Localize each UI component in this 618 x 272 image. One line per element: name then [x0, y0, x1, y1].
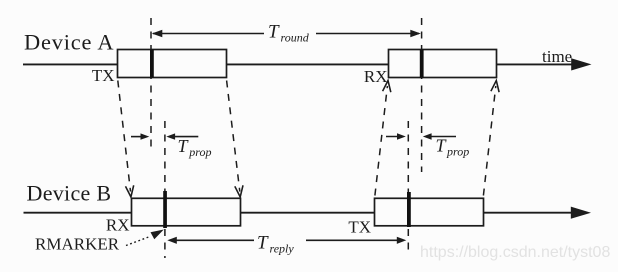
T_prop left dimension arrows — [131, 133, 212, 159]
svg-text:prop: prop — [188, 145, 211, 159]
device B timeline — [24, 207, 592, 219]
device A timeline — [23, 58, 592, 70]
frame A-TX — [118, 50, 227, 78]
T_reply dimension arrow — [167, 233, 406, 256]
marker bar A-RX — [420, 50, 424, 78]
svg-text:https://blog.csdn.net/tyst08: https://blog.csdn.net/tyst08 — [420, 244, 610, 261]
T_round dimension arrow — [152, 22, 421, 45]
propagation path A-TX right edge to B-RX right edge — [227, 81, 243, 198]
svg-text:Device B: Device B — [27, 181, 112, 206]
svg-text:time: time — [542, 47, 572, 66]
dashed vertical line through B TX marker — [407, 121, 409, 250]
svg-text:TX: TX — [92, 66, 115, 85]
svg-text:Device A: Device A — [24, 30, 114, 55]
dashed vertical line through A TX marker — [150, 18, 152, 147]
dashed vertical line through A RX marker — [421, 18, 423, 172]
marker bar A-TX — [150, 50, 154, 78]
svg-text:RMARKER: RMARKER — [35, 235, 120, 254]
svg-text:prop: prop — [446, 145, 469, 159]
svg-text:RX: RX — [106, 216, 130, 235]
svg-text:round: round — [281, 31, 310, 45]
frame A-RX — [389, 50, 497, 78]
propagation path B-TX left edge to A-RX left edge — [375, 81, 391, 196]
marker bar B-RX — [163, 191, 167, 228]
frame B-RX — [132, 198, 241, 226]
svg-text:reply: reply — [270, 242, 295, 256]
T_prop right dimension arrows — [386, 133, 469, 158]
frame B-TX — [375, 198, 484, 226]
marker bar B-TX — [407, 192, 411, 227]
propagation path B-TX right edge to A-RX right edge — [483, 81, 499, 196]
svg-text:RX: RX — [364, 67, 388, 86]
svg-text:TX: TX — [348, 218, 371, 237]
RMARKER callout — [35, 230, 164, 254]
svg-text:T: T — [268, 22, 280, 43]
svg-text:T: T — [257, 233, 269, 254]
dashed vertical line through B RX marker (RMARKER) — [164, 121, 166, 258]
propagation path A-TX left edge to B-RX left edge — [118, 81, 134, 198]
